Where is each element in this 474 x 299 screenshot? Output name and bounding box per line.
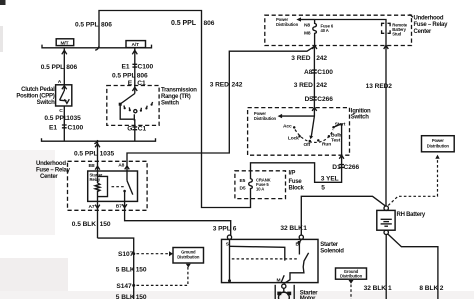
wire 0.5 PPL 806 main run (relay coil feed loop) xyxy=(99,11,251,208)
svg-text:Off: Off xyxy=(304,142,311,148)
svg-text:150: 150 xyxy=(100,221,111,228)
svg-text:0.5 PPL: 0.5 PPL xyxy=(112,72,135,79)
svg-text:Center: Center xyxy=(414,29,432,35)
svg-text:Test: Test xyxy=(331,138,341,144)
svg-text:N8: N8 xyxy=(304,23,310,29)
svg-text:3 RED: 3 RED xyxy=(294,82,313,89)
svg-text:150: 150 xyxy=(136,294,147,299)
svg-text:150: 150 xyxy=(136,267,147,274)
pin A label xyxy=(58,79,62,85)
A/T tag box xyxy=(126,41,146,49)
label Transmission Range (TR) Switch xyxy=(161,87,197,106)
svg-text:A8: A8 xyxy=(304,69,313,76)
wire relay B7 to solenoid 3 PPL 6 xyxy=(125,201,231,235)
ignition power distribution arrow xyxy=(254,111,315,121)
svg-text:2: 2 xyxy=(388,83,392,90)
label Starter Motor xyxy=(300,291,319,299)
pin exit mark (stud output) xyxy=(384,45,389,49)
svg-text:D5: D5 xyxy=(240,185,246,191)
svg-text:Distribution: Distribution xyxy=(177,254,200,259)
wire 32 BLK 1 battery negative down xyxy=(385,235,387,299)
svg-text:Distribution: Distribution xyxy=(340,274,363,279)
starter relay armature dashed link xyxy=(112,186,125,188)
svg-text:B8: B8 xyxy=(89,163,95,169)
svg-text:Run: Run xyxy=(322,142,331,148)
svg-text:I/P: I/P xyxy=(289,171,296,177)
svg-text:M/T: M/T xyxy=(61,40,69,46)
svg-text:C100: C100 xyxy=(138,64,154,71)
label 0.5 BLK 150 xyxy=(72,221,111,228)
wire M/T branch to CPP switch xyxy=(62,48,67,85)
svg-text:1: 1 xyxy=(388,285,392,292)
svg-text:2: 2 xyxy=(440,285,444,292)
svg-text:A7: A7 xyxy=(89,204,95,210)
svg-text:C266: C266 xyxy=(317,96,333,103)
CRANK fuse 5 10 A xyxy=(240,171,271,199)
wire relay A7 ground 0.5 BLK 150 xyxy=(97,201,99,238)
starter motor xyxy=(275,285,294,299)
wire 3 RED 242 branch to relay contact A8 xyxy=(127,46,315,171)
ground distribution box (left) xyxy=(173,248,204,268)
dashed reference ground distribution (right) xyxy=(349,280,354,299)
svg-text:32 BLK: 32 BLK xyxy=(280,225,303,232)
svg-text:242: 242 xyxy=(316,82,327,89)
svg-text:Acc: Acc xyxy=(283,124,292,130)
label 5 BLK 150 (upper) xyxy=(116,267,147,274)
svg-text:B7: B7 xyxy=(116,203,122,209)
label I/P Fuse Block xyxy=(289,171,305,192)
underhood fuse-relay center dashed box (top right) xyxy=(265,15,412,45)
svg-text:806: 806 xyxy=(204,20,215,27)
underhood fuse-relay center label (left) xyxy=(36,161,71,180)
connector E18 C100 (A/T branch) xyxy=(122,64,154,71)
wire ignition start output 3 YEL 5 xyxy=(251,124,344,183)
svg-text:3 PPL: 3 PPL xyxy=(213,225,231,232)
ignition position labels xyxy=(283,121,346,147)
solenoid S terminal xyxy=(226,235,232,248)
wire 8 BLK 2 battery to ground xyxy=(388,234,438,299)
svg-text:Underhood: Underhood xyxy=(414,15,444,21)
scan artifact top-left corner blob xyxy=(0,0,6,52)
ground distribution box (right) xyxy=(336,268,367,279)
svg-text:8 BLK: 8 BLK xyxy=(419,285,438,292)
svg-text:Distribution: Distribution xyxy=(254,116,277,121)
wire A/T branch to TR switch xyxy=(132,48,137,86)
pin C label xyxy=(59,108,63,114)
svg-text:Starter: Starter xyxy=(320,242,339,248)
I/P fuse block dashed box xyxy=(235,171,286,199)
label 5 BLK 150 (lower, clipped) xyxy=(116,294,147,299)
svg-text:S147: S147 xyxy=(116,283,132,290)
wire 32 BLK 1 battery to solenoid B xyxy=(301,196,385,235)
svg-text:C266: C266 xyxy=(344,164,360,171)
solenoid internals xyxy=(228,239,309,283)
ignition switch dashed box xyxy=(248,108,350,156)
solenoid M terminal xyxy=(282,284,286,288)
svg-text:Fuse – Relay: Fuse – Relay xyxy=(414,22,449,28)
svg-text:Underhood: Underhood xyxy=(36,161,66,167)
label 32 BLK 1 (battery) xyxy=(364,285,392,292)
svg-text:1: 1 xyxy=(303,225,307,232)
svg-text:1035: 1035 xyxy=(100,151,115,158)
underhood fuse-relay center dashed box (left) xyxy=(68,161,148,210)
splice S147 xyxy=(116,283,135,290)
label 0.5 PPL 806 (left vertical) xyxy=(75,22,112,29)
wire C100 connector bus (top) xyxy=(42,45,152,51)
dashed reference battery to power distribution xyxy=(388,155,440,206)
svg-text:Center: Center xyxy=(40,174,58,180)
RH battery box xyxy=(377,206,395,235)
svg-text:Switch: Switch xyxy=(351,115,369,121)
wire 3 RED 242 main to ignition switch xyxy=(313,46,315,108)
svg-text:Range (TR): Range (TR) xyxy=(161,94,191,100)
svg-text:A8: A8 xyxy=(118,162,124,168)
pin B7 xyxy=(116,203,127,209)
svg-text:E1: E1 xyxy=(49,124,57,131)
connector A8 C100 xyxy=(304,69,333,76)
svg-text:Fuse – Relay: Fuse – Relay xyxy=(36,167,71,173)
wire C100 connector bus (lower) xyxy=(42,138,156,147)
svg-text:242: 242 xyxy=(316,55,327,62)
pin exit mark (fuse output) xyxy=(312,45,317,49)
svg-text:0.5 PPL: 0.5 PPL xyxy=(44,115,67,122)
svg-text:806: 806 xyxy=(66,64,77,71)
svg-text:5 BLK: 5 BLK xyxy=(116,267,135,274)
svg-text:0.5 PPL: 0.5 PPL xyxy=(41,64,64,71)
fuse 6 40 A xyxy=(304,20,334,46)
label 0.5 PPL 1035 (to starter relay) xyxy=(74,151,114,158)
svg-text:806: 806 xyxy=(101,22,112,29)
label 3 RED 242 (branch) xyxy=(210,81,243,88)
label Ignition Switch xyxy=(351,108,371,120)
ignition switch rotor wire xyxy=(309,108,316,140)
wire ground run to S107 S147 xyxy=(98,238,134,299)
label 0.5 PPL 806 (A/T branch) xyxy=(112,72,148,79)
transmission range switch TR internals xyxy=(119,86,153,126)
label 8 BLK 2 xyxy=(419,285,443,292)
M/T tag box xyxy=(56,39,73,47)
splice S107 xyxy=(118,251,135,258)
label Underhood Fuse-Relay Center (top right) xyxy=(410,14,449,35)
svg-text:0.5 PPL: 0.5 PPL xyxy=(75,22,98,29)
svg-text:Block: Block xyxy=(289,186,305,192)
transmission range switch TR dashed box xyxy=(107,86,159,126)
svg-text:G: G xyxy=(127,126,132,133)
svg-text:1035: 1035 xyxy=(66,115,81,122)
ignition switch contact arc xyxy=(293,124,342,143)
starter solenoid box xyxy=(222,239,319,282)
svg-text:Switch: Switch xyxy=(37,100,55,106)
label 3 RED 242 (below fuse) xyxy=(291,55,327,62)
dashed reference S107 to ground distribution xyxy=(137,251,174,256)
label 0.5 PPL 806 (M/T branch) xyxy=(41,64,78,71)
pin B8 xyxy=(89,163,100,170)
svg-text:C100: C100 xyxy=(317,69,333,76)
svg-text:32 BLK: 32 BLK xyxy=(364,285,387,292)
clutch pedal position switch CPP box xyxy=(56,85,72,106)
label Clutch Pedal Position (CPP) Switch xyxy=(16,87,55,106)
starter relay box xyxy=(88,171,138,201)
svg-text:M: M xyxy=(277,278,281,284)
svg-text:3 YEL: 3 YEL xyxy=(321,175,339,182)
svg-text:0.5 PPL: 0.5 PPL xyxy=(171,20,197,27)
wire CPP to C100 bus xyxy=(63,106,65,141)
svg-text:Relay: Relay xyxy=(90,177,101,182)
pin A7 xyxy=(89,204,100,210)
label 3 YEL 5 xyxy=(321,175,339,191)
svg-text:806: 806 xyxy=(137,72,148,79)
svg-text:Distribution: Distribution xyxy=(276,22,299,27)
svg-text:6: 6 xyxy=(233,225,237,232)
svg-text:40 A: 40 A xyxy=(321,28,329,33)
remote battery stud xyxy=(382,23,408,37)
power distribution reference arrow (in top box) xyxy=(276,17,315,27)
pin E C1 label xyxy=(128,80,146,87)
svg-text:RH Battery: RH Battery xyxy=(397,212,426,218)
dashed reference S147 to ground distribution xyxy=(137,266,188,285)
label 3 PPL 6 xyxy=(213,225,237,232)
svg-text:E1: E1 xyxy=(122,64,130,71)
svg-text:Switch: Switch xyxy=(161,101,179,107)
label 13 RED 2 xyxy=(366,83,393,90)
label 3 RED 242 (main) xyxy=(294,82,328,89)
pin G C1 label xyxy=(127,126,146,133)
label 32 BLK 1 (solenoid) xyxy=(280,225,307,232)
svg-text:3 RED: 3 RED xyxy=(210,81,229,88)
connector D1 C266 xyxy=(332,164,359,171)
connector D5 C266 xyxy=(305,96,334,103)
svg-text:0.5 BLK: 0.5 BLK xyxy=(72,221,96,228)
svg-text:5: 5 xyxy=(321,185,325,192)
label RH Battery xyxy=(397,212,426,218)
connector E1 C100 (CPP) xyxy=(49,124,83,131)
svg-text:Lock: Lock xyxy=(288,135,299,141)
label 0.5 PPL 806 (right vertical) xyxy=(171,20,215,27)
svg-text:13 RED: 13 RED xyxy=(366,83,389,90)
wire to relay B8 xyxy=(97,141,99,171)
svg-text:Start: Start xyxy=(335,121,346,127)
svg-text:M8: M8 xyxy=(304,30,311,36)
svg-text:Stud: Stud xyxy=(392,31,401,36)
svg-text:0.5 PPL: 0.5 PPL xyxy=(74,151,97,158)
scan artifact gray patches xyxy=(0,150,474,299)
svg-text:A/T: A/T xyxy=(132,42,140,48)
label Starter Solenoid xyxy=(320,242,344,254)
svg-text:Distribution: Distribution xyxy=(427,143,450,148)
svg-text:Clutch Pedal: Clutch Pedal xyxy=(21,87,55,93)
wire battery feed to remote battery stud xyxy=(315,20,386,207)
svg-text:Solenoid: Solenoid xyxy=(320,248,344,254)
svg-text:5 BLK: 5 BLK xyxy=(116,294,135,299)
pin A8 xyxy=(118,162,129,169)
svg-text:Ignition: Ignition xyxy=(351,108,371,114)
svg-text:S107: S107 xyxy=(118,251,134,258)
svg-text:C100: C100 xyxy=(68,124,84,131)
label 0.5 PPL 1035 (CPP out) xyxy=(44,115,81,122)
svg-text:C1: C1 xyxy=(138,126,147,133)
svg-text:Position (CPP): Position (CPP) xyxy=(16,93,54,99)
wire TR to C100 bus xyxy=(134,125,136,141)
svg-text:242: 242 xyxy=(232,81,243,88)
starter relay coil xyxy=(95,171,107,201)
power distribution box (right) xyxy=(422,136,455,152)
solenoid B terminal xyxy=(296,235,304,248)
svg-text:10 A: 10 A xyxy=(256,186,264,191)
svg-text:3 RED: 3 RED xyxy=(291,55,310,62)
svg-text:Fuse: Fuse xyxy=(289,179,303,185)
svg-text:E5: E5 xyxy=(240,178,246,184)
svg-text:Transmission: Transmission xyxy=(161,87,197,93)
starter relay contact xyxy=(123,171,133,201)
